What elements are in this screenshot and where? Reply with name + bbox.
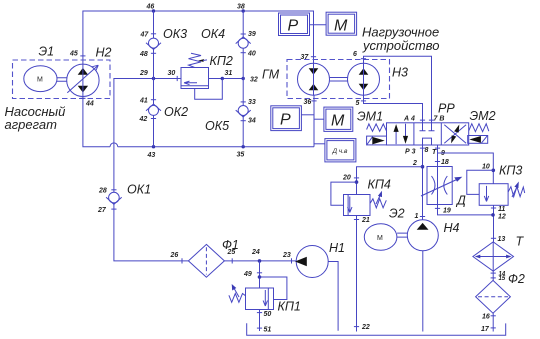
svg-text:22: 22 — [361, 324, 370, 331]
svg-text:М: М — [37, 77, 43, 84]
svg-text:48: 48 — [139, 51, 148, 58]
node 17 — [491, 327, 496, 329]
node 2 — [421, 165, 425, 169]
wire KP4 branch from node 2 — [357, 167, 423, 195]
svg-text:46: 46 — [146, 4, 155, 11]
svg-text:40: 40 — [247, 51, 256, 58]
svg-text:17: 17 — [481, 326, 490, 333]
svg-text:47: 47 — [140, 32, 150, 39]
node 50 — [257, 312, 262, 314]
wire T to F2 — [492, 271, 494, 280]
check valve OK4 — [238, 38, 248, 48]
svg-text:Э2: Э2 — [389, 207, 405, 221]
node 16 — [491, 315, 496, 317]
node 12 — [491, 213, 495, 217]
pump H4 — [407, 220, 459, 251]
svg-text:ЭМ1: ЭМ1 — [357, 109, 383, 123]
svg-text:39: 39 — [248, 31, 256, 38]
svg-text:ГМ: ГМ — [262, 68, 280, 82]
wire P lower stub — [301, 114, 314, 116]
svg-text:19: 19 — [443, 208, 451, 215]
wire bottom drain rail — [247, 323, 506, 335]
node 21 — [354, 219, 359, 221]
svg-text:43: 43 — [147, 152, 156, 159]
motor E1 — [24, 66, 57, 92]
svg-text:13: 13 — [498, 236, 506, 243]
svg-text:25: 25 — [227, 249, 236, 256]
wire branch T to KP3 — [438, 153, 494, 184]
svg-text:Д ч.в: Д ч.в — [332, 148, 349, 155]
svg-text:8: 8 — [425, 147, 429, 154]
valve right position crossed arrows — [444, 125, 466, 144]
wire D drain to node 12 — [438, 205, 494, 215]
node 44 — [80, 97, 85, 99]
svg-text:ОК4: ОК4 — [201, 27, 225, 41]
svg-text:49: 49 — [243, 271, 252, 278]
svg-text:Т: Т — [432, 149, 437, 156]
node 27 — [111, 208, 116, 210]
wire mid pressure rail — [114, 79, 243, 193]
svg-text:41: 41 — [139, 98, 148, 105]
wire GM bottom to drain rail — [313, 95, 315, 147]
shaft E2-H4 — [397, 233, 407, 237]
svg-text:КП3: КП3 — [499, 164, 522, 178]
svg-text:28: 28 — [98, 188, 107, 195]
svg-text:44: 44 — [85, 101, 94, 108]
wire N3 bottom to valve port A — [364, 95, 423, 123]
node 32 — [242, 77, 245, 80]
svg-text:М: М — [334, 18, 348, 35]
svg-text:РР: РР — [438, 102, 455, 116]
wire KP1 pilot loop — [260, 277, 287, 300]
svg-text:26: 26 — [170, 252, 179, 259]
svg-text:51: 51 — [264, 327, 272, 334]
svg-text:18: 18 — [441, 159, 449, 166]
node 33 — [241, 101, 246, 103]
svg-text:27: 27 — [97, 207, 107, 214]
node 40 — [241, 52, 246, 54]
gauge M upper — [326, 12, 357, 35]
directional valve RR body — [387, 102, 469, 146]
svg-text:Н3: Н3 — [392, 66, 408, 80]
svg-text:7 В: 7 В — [434, 115, 445, 122]
node 46 — [152, 9, 155, 12]
relief valve KP3 — [479, 164, 525, 206]
valve centre position blocked A B — [420, 123, 435, 131]
wire KP1 branch from node 24 — [259, 261, 261, 288]
solenoid EM2 — [468, 109, 496, 144]
svg-text:50: 50 — [264, 311, 272, 318]
svg-text:ОК1: ОК1 — [127, 183, 151, 197]
svg-text:Э1: Э1 — [39, 45, 55, 59]
svg-text:12: 12 — [498, 214, 506, 221]
relief valve KP1 — [229, 284, 301, 314]
svg-text:Р 3: Р 3 — [405, 149, 416, 156]
node 5 — [361, 100, 366, 102]
svg-text:А 4: А 4 — [403, 115, 415, 122]
svg-text:15: 15 — [499, 276, 506, 282]
node 13 — [491, 237, 496, 239]
node 1 — [420, 216, 425, 218]
svg-text:P: P — [280, 112, 291, 129]
svg-text:ОК5: ОК5 — [205, 119, 229, 133]
motor E2 — [364, 207, 404, 251]
wire pump drain to rail with hop over suction line — [83, 97, 314, 147]
node 18 — [435, 161, 440, 163]
wire check column OK3/OK2 — [153, 11, 155, 147]
filter F1 — [188, 238, 238, 277]
hydro motor GM — [298, 63, 330, 95]
svg-text:ОК2: ОК2 — [164, 105, 188, 119]
wire valve P port down to pump N4 — [422, 145, 424, 220]
gauge M lower — [324, 107, 353, 131]
node 49 — [257, 272, 262, 274]
svg-text:11: 11 — [498, 206, 505, 213]
pump N3 — [348, 63, 380, 95]
svg-text:24: 24 — [251, 249, 260, 256]
node 24 — [258, 259, 262, 263]
wire KP3 output down — [493, 205, 495, 242]
wire KP2 drain loop to node 31 — [195, 79, 223, 100]
node 23 — [291, 258, 293, 263]
wire N3 top to valve port B — [364, 56, 432, 123]
node 35 — [242, 145, 245, 148]
wire OK1 down to filter F1 — [114, 203, 188, 261]
svg-text:КП2: КП2 — [210, 54, 233, 68]
svg-text:37: 37 — [301, 54, 310, 61]
throttle D — [421, 167, 466, 208]
node 10 — [492, 169, 496, 173]
speed sensor D ch.v box — [325, 139, 356, 162]
node 38 — [242, 9, 245, 12]
svg-text:36: 36 — [304, 99, 312, 106]
wire F2 down — [492, 313, 494, 331]
svg-text:23: 23 — [282, 252, 291, 259]
node 25 — [231, 258, 233, 263]
wire KP1 drain down — [259, 310, 261, 332]
svg-text:6: 6 — [353, 51, 357, 58]
svg-text:30: 30 — [168, 70, 176, 77]
svg-text:Н4: Н4 — [444, 221, 460, 235]
pump H1 — [295, 241, 345, 278]
node 49 junction — [258, 275, 262, 279]
pump H2 — [67, 64, 99, 96]
check valve OK2 — [149, 105, 159, 115]
node 19 — [435, 207, 440, 209]
svg-text:1: 1 — [415, 213, 419, 220]
wire pump through line down — [82, 64, 84, 97]
node 29 — [152, 77, 155, 80]
shaft GM-N3 — [330, 78, 348, 82]
svg-text:Ф2: Ф2 — [508, 272, 525, 286]
node 26 — [181, 258, 183, 263]
svg-text:5: 5 — [356, 100, 360, 107]
valve centre position P-T bypass — [423, 138, 432, 145]
node 30 — [176, 76, 178, 81]
svg-text:32: 32 — [250, 77, 258, 84]
svg-text:КП1: КП1 — [278, 300, 301, 314]
node 20 — [354, 177, 359, 179]
node 22 — [354, 326, 359, 328]
wire D ch.v stub — [314, 143, 325, 145]
node 14 — [491, 272, 496, 274]
node 43 — [152, 145, 155, 148]
svg-text:агрегат: агрегат — [5, 117, 58, 132]
svg-text:34: 34 — [248, 118, 256, 125]
svg-text:16: 16 — [482, 314, 490, 321]
svg-text:20: 20 — [342, 175, 351, 182]
check valve OK5 — [238, 106, 248, 116]
filter F2 — [476, 272, 525, 313]
wire M lower stub — [314, 118, 324, 120]
wire P-M connector upper — [310, 24, 327, 26]
gauge P upper — [279, 13, 310, 36]
node 36 — [311, 100, 316, 102]
port labels P 3 8 T 9 — [420, 147, 440, 149]
node 42 — [151, 118, 156, 120]
check valve OK1 — [106, 183, 151, 205]
shaft E1-H2 — [57, 78, 67, 81]
svg-text:Н2: Н2 — [96, 46, 112, 60]
node KP4 pilot junction — [355, 180, 359, 184]
relief valve KP2 — [181, 53, 233, 88]
node 34 — [241, 120, 246, 122]
svg-text:КП4: КП4 — [368, 178, 391, 192]
solenoid EM1 — [357, 109, 387, 145]
node 31 — [221, 77, 224, 80]
svg-text:35: 35 — [237, 152, 245, 159]
port ticks 4 and 7 — [420, 119, 434, 121]
wire KP3 pilot loop — [467, 170, 494, 194]
svg-text:45: 45 — [69, 51, 78, 58]
node 15 — [491, 277, 496, 279]
svg-text:устройство: устройство — [362, 38, 439, 53]
wire H1 output down — [328, 262, 338, 331]
svg-text:Н1: Н1 — [329, 241, 345, 255]
wire valve T port down to throttle D — [437, 145, 439, 167]
wire KP4 pilot loop — [331, 182, 357, 205]
svg-text:М: М — [377, 235, 383, 242]
node 37 — [311, 56, 316, 58]
svg-text:10: 10 — [482, 164, 490, 171]
check valve OK3 — [149, 38, 159, 48]
node 6 — [361, 58, 366, 60]
svg-text:ЭМ2: ЭМ2 — [470, 109, 496, 123]
gauge P lower — [271, 106, 302, 131]
node 51 — [257, 327, 262, 329]
load unit dashed box — [287, 60, 390, 99]
svg-text:Д: Д — [455, 194, 466, 208]
svg-text:М: М — [331, 113, 345, 130]
svg-text:38: 38 — [237, 4, 245, 11]
wire top rail from pump H2 to GM — [83, 11, 314, 64]
node 28 — [111, 189, 116, 191]
svg-text:ОК3: ОК3 — [163, 27, 187, 41]
node 47 — [151, 33, 156, 35]
node 11 — [491, 207, 496, 209]
node 39 — [241, 33, 246, 35]
node 45 — [80, 55, 85, 57]
svg-text:21: 21 — [361, 217, 370, 224]
valve left position arrows — [396, 124, 405, 144]
wire check column OK4/OK5 — [242, 11, 244, 147]
node 41 — [151, 99, 156, 101]
heat exchanger T — [473, 235, 525, 272]
node 48 — [151, 52, 156, 54]
svg-text:33: 33 — [248, 99, 256, 106]
wire F1 to pump H1 — [224, 260, 296, 262]
svg-text:29: 29 — [139, 70, 148, 77]
wire KP4 drain down — [356, 216, 358, 332]
relief valve KP4 — [344, 178, 391, 216]
wire H4 bottom drain — [422, 251, 424, 332]
pump unit dashed box — [13, 60, 111, 99]
svg-text:P: P — [288, 18, 299, 35]
svg-text:31: 31 — [225, 70, 233, 77]
svg-text:42: 42 — [139, 116, 148, 123]
svg-text:2: 2 — [412, 160, 417, 167]
